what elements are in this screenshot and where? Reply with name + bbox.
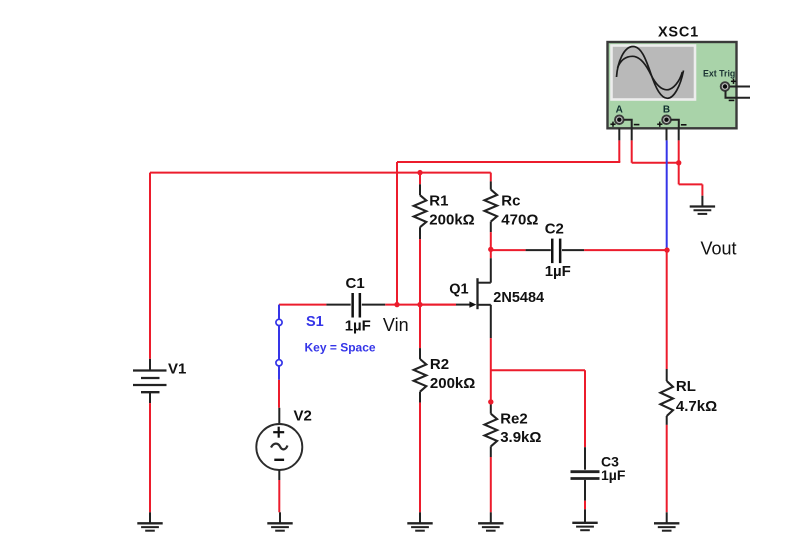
svg-text:A: A (616, 105, 623, 116)
svg-text:Re2: Re2 (500, 410, 528, 427)
svg-text:1µF: 1µF (545, 263, 571, 280)
svg-text:200kΩ: 200kΩ (429, 211, 474, 228)
svg-text:C2: C2 (545, 220, 564, 237)
svg-text:C1: C1 (346, 275, 365, 292)
svg-text:4.7kΩ: 4.7kΩ (676, 398, 717, 415)
svg-text:1µF: 1µF (601, 467, 626, 483)
svg-text:V2: V2 (294, 408, 312, 425)
svg-text:1µF: 1µF (345, 317, 371, 334)
svg-text:Q1: Q1 (449, 282, 468, 298)
svg-text:Rc: Rc (501, 192, 520, 209)
svg-text:RL: RL (676, 378, 696, 395)
svg-text:S1: S1 (306, 314, 324, 330)
svg-text:3.9kΩ: 3.9kΩ (500, 429, 541, 446)
svg-text:200kΩ: 200kΩ (430, 375, 475, 392)
svg-text:Ext Trig: Ext Trig (703, 68, 735, 78)
svg-text:B: B (663, 105, 670, 116)
svg-text:470Ω: 470Ω (501, 211, 538, 228)
svg-text:Vout: Vout (701, 239, 737, 259)
svg-text:V1: V1 (168, 361, 186, 378)
svg-text:XSC1: XSC1 (658, 25, 699, 41)
svg-text:2N5484: 2N5484 (493, 290, 544, 306)
svg-text:Vin: Vin (383, 315, 409, 335)
svg-text:R1: R1 (429, 192, 448, 209)
svg-text:Key = Space: Key = Space (305, 340, 376, 354)
svg-text:R2: R2 (430, 356, 449, 373)
